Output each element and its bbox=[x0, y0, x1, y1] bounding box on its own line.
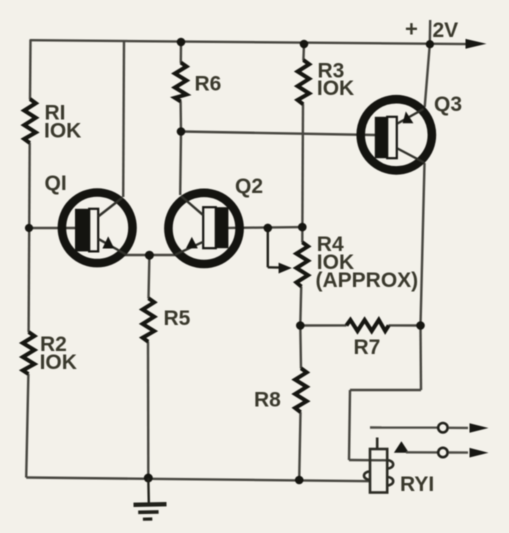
wire R5 bottom to ground rail bbox=[147, 342, 150, 479]
wire left rail middle bbox=[29, 143, 30, 332]
svg-text:IOK: IOK bbox=[317, 77, 354, 100]
junction node R7 / Q3 collector bbox=[416, 321, 425, 330]
svg-text:R8: R8 bbox=[254, 389, 281, 412]
transistor Q3 bbox=[361, 99, 432, 170]
wire Q2 base to divider node bbox=[228, 226, 302, 229]
svg-text:IOK: IOK bbox=[44, 119, 81, 142]
resistor R4 body bbox=[296, 242, 308, 286]
svg-text:RYI: RYI bbox=[400, 473, 434, 496]
svg-text:IOK: IOK bbox=[40, 351, 77, 374]
wire relay feed vertical right bbox=[419, 326, 422, 391]
wire Q3 collector down bbox=[421, 163, 425, 326]
junction node emitters / R5 bbox=[145, 251, 154, 260]
svg-text:Q3: Q3 bbox=[434, 93, 462, 116]
svg-text:R6: R6 bbox=[195, 73, 222, 96]
junction node rail / +12V bbox=[426, 40, 434, 48]
resistor R5 bbox=[143, 298, 155, 342]
svg-text:(APPROX): (APPROX) bbox=[316, 269, 419, 292]
contact lead 2 bbox=[449, 451, 468, 454]
wire R3 top lead bbox=[302, 44, 305, 61]
contact circle 2 bbox=[438, 448, 447, 457]
svg-text:2V: 2V bbox=[433, 19, 459, 42]
wire left rail lower bbox=[26, 374, 28, 478]
resistor R2 bbox=[23, 332, 35, 374]
+12V supply arrowhead bbox=[466, 39, 487, 49]
junction node rail / R3 bbox=[300, 40, 309, 49]
contact circle 1 bbox=[438, 423, 447, 432]
wire R7 left lead bbox=[300, 324, 346, 327]
transistor Q2 bbox=[168, 193, 239, 264]
svg-text:QI: QI bbox=[45, 172, 67, 195]
junction node divider bbox=[298, 223, 307, 232]
wire R8 top lead bbox=[299, 326, 302, 369]
ground symbol bbox=[134, 478, 167, 519]
wire +12V drop to Q3 emitter bbox=[429, 20, 432, 44]
svg-text:R5: R5 bbox=[164, 307, 191, 330]
junction node R4 / R7 / R8 bbox=[296, 321, 305, 330]
wire R6 node to Q3 base bbox=[181, 132, 376, 136]
junction node R5 / ground rail bbox=[144, 474, 153, 483]
wire Q1 base from left rail bbox=[29, 227, 76, 229]
relay armature triangle bbox=[394, 441, 409, 452]
junction node R8 / ground rail bbox=[295, 476, 304, 485]
svg-text:+: + bbox=[405, 16, 418, 41]
transistor Q1 bbox=[62, 193, 133, 264]
potentiometer R4 wiper bbox=[268, 228, 280, 268]
wire R8 bottom lead bbox=[299, 412, 300, 480]
relay contact arm 2 bbox=[406, 451, 438, 454]
wire Q1 collector to rail bbox=[122, 41, 125, 197]
wire left rail upper bbox=[29, 40, 32, 99]
svg-text:Q2: Q2 bbox=[235, 175, 263, 198]
wire R3 bottom to R4 node bbox=[301, 104, 304, 243]
junction node rail / R6 bbox=[177, 38, 186, 47]
wire Q2 collector up to R6 node bbox=[179, 132, 182, 196]
relay RY1 coil bbox=[364, 438, 393, 493]
wire relay feed vertical left bbox=[349, 390, 350, 460]
wire emitter bus Q1-Q2 bbox=[124, 254, 176, 256]
resistor R8 bbox=[295, 368, 307, 412]
contact arrow 2 bbox=[470, 448, 489, 458]
resistor R7 (horizontal) bbox=[346, 320, 388, 331]
resistor R6 bbox=[175, 63, 187, 102]
junction node R6 / Q3 base / Q2 collector bbox=[177, 127, 186, 136]
junction node left rail / Q1 base bbox=[25, 224, 33, 232]
wire R7 right lead bbox=[389, 324, 421, 327]
contact arrow 1 bbox=[470, 423, 489, 433]
resistor R3 bbox=[298, 60, 310, 104]
wire R6 bottom lead bbox=[179, 101, 182, 132]
wire R5 top lead bbox=[147, 255, 150, 298]
resistor R1 bbox=[24, 99, 36, 143]
junction node Q2 base / wiper bbox=[264, 224, 273, 233]
wire into relay coil bbox=[349, 459, 387, 462]
wire R4 bottom lead bbox=[299, 287, 302, 326]
relay contact arm 1 bbox=[370, 426, 438, 429]
contact lead 1 bbox=[449, 427, 468, 430]
wire bottom ground rail bbox=[26, 478, 370, 482]
wire R6 top lead bbox=[180, 42, 183, 63]
wire relay feed horizontal bbox=[350, 389, 421, 391]
wire top rail bbox=[31, 40, 469, 44]
svg-text:R7: R7 bbox=[354, 336, 381, 359]
